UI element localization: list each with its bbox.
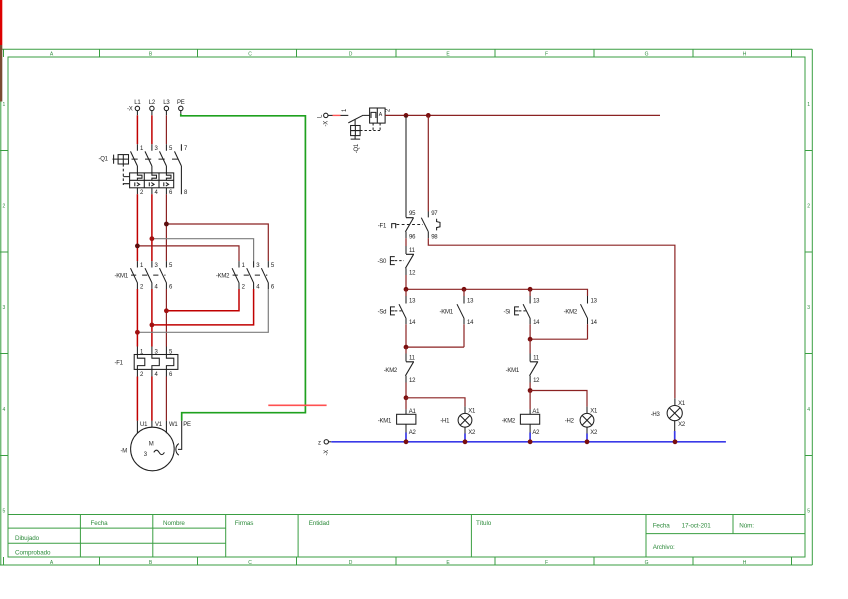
- wire L3 phase: [165, 115, 167, 144]
- wire KM1 pole2 down: [136, 289, 138, 347]
- svg-text:-Q1: -Q1: [99, 156, 109, 162]
- F1 NO spring hook: [437, 219, 440, 231]
- thermal relay F1 box: [134, 355, 178, 370]
- control rail wire: [385, 114, 660, 116]
- svg-text:-KM1: -KM1: [506, 368, 520, 374]
- svg-text:PE: PE: [177, 100, 185, 106]
- terminal L1: [135, 106, 139, 110]
- svg-text:X2: X2: [468, 430, 476, 436]
- svg-text:3: 3: [2, 305, 5, 311]
- node latch right: [528, 337, 533, 342]
- neutral terminal z: [324, 440, 328, 444]
- control terminal L: [324, 113, 328, 117]
- terminal L3: [164, 106, 168, 110]
- svg-text:G: G: [645, 560, 649, 566]
- motor sine symbol: [154, 450, 165, 454]
- svg-text:98: 98: [431, 234, 438, 240]
- node latch: [404, 345, 409, 350]
- F1 trip symbol: [392, 224, 396, 229]
- svg-text:-X: -X: [324, 450, 330, 456]
- wire 96 to S0: [405, 238, 407, 246]
- svg-text:Núm:: Núm:: [739, 523, 754, 530]
- svg-text:Título: Título: [476, 520, 492, 527]
- terminal PE: [179, 106, 183, 110]
- contactor KM2 pin numbers: [242, 263, 275, 291]
- stop button S0 NC contact: [405, 246, 414, 275]
- node bus1/Si: [528, 287, 533, 292]
- svg-text:A1: A1: [409, 409, 417, 415]
- breaker Q1 thermal elements: [137, 173, 171, 180]
- svg-text:-Si: -Si: [504, 310, 511, 316]
- svg-text:-X: -X: [324, 121, 330, 127]
- coil KM2: [520, 414, 539, 424]
- svg-text:13: 13: [467, 298, 474, 304]
- control stub black: [328, 114, 333, 116]
- svg-text:2: 2: [807, 204, 810, 210]
- svg-text:14: 14: [467, 320, 474, 326]
- lamp H3 bottom wire: [674, 421, 676, 431]
- svg-text:X1: X1: [678, 401, 686, 407]
- left coordinate band row ticks: [0, 151, 8, 456]
- coil KM1 bottom wire: [405, 424, 407, 432]
- contactor KM1 linkage: [131, 274, 166, 276]
- start button Sd NO contact: [405, 289, 407, 296]
- svg-text:5: 5: [807, 509, 810, 515]
- svg-text:-H2: -H2: [565, 419, 575, 425]
- svg-text:X2: X2: [590, 430, 598, 436]
- z stub: [329, 441, 332, 443]
- svg-text:-X: -X: [127, 107, 133, 113]
- svg-text:2: 2: [2, 204, 5, 210]
- node bus2/KM2 coil: [528, 439, 533, 444]
- right band row numbers 1-5: [807, 102, 810, 515]
- F1 NO contact 97-98: [421, 218, 428, 239]
- terminal strip -X labels L1 L2 L3 PE: [134, 100, 184, 106]
- svg-text:-Sd: -Sd: [378, 310, 387, 316]
- svg-text:M: M: [149, 442, 154, 448]
- wire to motor U1: [136, 377, 138, 421]
- svg-text:-KM2: -KM2: [564, 310, 578, 316]
- wire to coil node right: [529, 383, 531, 391]
- F1 aux dashed linkage: [397, 224, 424, 226]
- breaker Q1 linkage dashes: [132, 158, 180, 160]
- KM1 aux NO contact 13-14: [463, 289, 465, 296]
- pink spare wire segment: [268, 404, 326, 406]
- wire branch to lamp H1: [406, 398, 465, 407]
- svg-text:C: C: [248, 560, 252, 566]
- control bus1: [406, 289, 588, 296]
- wire S0 to bus1: [405, 275, 407, 289]
- svg-text:-H3: -H3: [651, 412, 661, 418]
- breaker Q1 pole 3-4: [145, 144, 152, 173]
- wire L3 below Q1: [165, 194, 167, 261]
- node bus1/KM1-13: [462, 287, 467, 292]
- terminal L2: [150, 106, 154, 110]
- lamp H3: [667, 406, 682, 421]
- contactor KM2 pole 1-2: [232, 261, 239, 289]
- svg-text:13: 13: [409, 298, 416, 304]
- wire 98 to H3 branch: [428, 238, 675, 398]
- svg-text:11: 11: [533, 356, 540, 362]
- svg-text:13: 13: [533, 298, 540, 304]
- lamp H1: [458, 413, 472, 427]
- svg-text:-Q1: -Q1: [354, 143, 360, 153]
- svg-text:A2: A2: [409, 430, 417, 436]
- svg-text:-KM1: -KM1: [378, 419, 392, 425]
- crossover wire KM2 pole2 to phase3: [166, 289, 239, 311]
- breaker Q1 pin numbers bottom 2 4 6 8: [140, 190, 188, 196]
- wire L1 phase: [136, 115, 138, 144]
- svg-text:-S0: -S0: [378, 259, 388, 265]
- start button Si NO contact: [529, 289, 531, 296]
- wire KM1 pole6 down: [165, 289, 167, 347]
- interlock KM1 NC contact 11-12: [529, 339, 531, 353]
- svg-text:H: H: [743, 52, 747, 58]
- control pink wire: [333, 114, 341, 116]
- bottom band letters A-H: [50, 560, 747, 566]
- top band letters A-H: [50, 52, 747, 58]
- crossover wire L1 to KM2 pole1: [137, 246, 239, 261]
- svg-text:Comprobado: Comprobado: [15, 550, 51, 557]
- title block texts: [15, 520, 754, 557]
- crossover wire L3 to KM2 pole5: [166, 224, 268, 261]
- coil KM1: [397, 414, 416, 424]
- breaker Q1 pole 1-2: [131, 144, 138, 173]
- thermal relay F1 bottom stubs: [137, 369, 166, 376]
- svg-text:Dibujado: Dibujado: [15, 535, 40, 542]
- node bus2/KM1 coil: [404, 439, 409, 444]
- Q1 aux operator link: [354, 120, 356, 126]
- Q1 aux operator square: [351, 126, 361, 136]
- wire to coil KM1: [405, 398, 407, 410]
- svg-text:1: 1: [2, 102, 5, 108]
- wire to coil node: [405, 383, 407, 398]
- breaker Q1 magnetic elements I>: [135, 182, 169, 186]
- svg-text:-KM2: -KM2: [216, 274, 230, 280]
- contactor KM1 pole 3-4: [145, 261, 152, 289]
- node L3/KM2: [164, 222, 169, 227]
- svg-text:G: G: [645, 52, 649, 58]
- svg-text:-KM1: -KM1: [115, 274, 129, 280]
- svg-text:X1: X1: [590, 408, 598, 414]
- svg-text:Archivo:: Archivo:: [653, 544, 675, 551]
- svg-text:X1: X1: [468, 408, 476, 414]
- contactor KM1 pole 1-2: [131, 261, 138, 289]
- svg-text:14: 14: [409, 320, 416, 326]
- svg-text:11: 11: [409, 356, 416, 362]
- breaker Q1 pole 5-6: [160, 144, 167, 173]
- lamp H1 stub: [464, 407, 466, 414]
- thermal relay F1 pin numbers bottom: [140, 372, 173, 378]
- svg-text:12: 12: [409, 378, 416, 384]
- svg-text:1: 1: [807, 102, 810, 108]
- right coordinate band row ticks: [805, 151, 812, 456]
- svg-text:z: z: [318, 441, 321, 447]
- contactor KM1 pin numbers: [140, 263, 173, 291]
- node phase2 swap: [150, 323, 155, 328]
- svg-text:-KM1: -KM1: [440, 310, 454, 316]
- node L1/KM2: [135, 244, 140, 249]
- left band row numbers 1-5: [2, 102, 5, 515]
- wire PE into motor: [178, 421, 182, 450]
- node rail/branch2: [426, 113, 431, 118]
- svg-text:L3: L3: [163, 100, 170, 106]
- node phase1 swap: [135, 330, 140, 335]
- breaker Q1 aux pole 7-8: [175, 144, 182, 194]
- node bus1/Sd: [404, 287, 409, 292]
- node bus2/H1: [463, 439, 468, 444]
- wire L2 phase: [151, 115, 153, 144]
- svg-text:Fecha: Fecha: [91, 520, 109, 527]
- latching wires Sd/KM1: [406, 324, 464, 347]
- svg-text:11: 11: [409, 248, 416, 254]
- lamp H2 bottom wire: [586, 427, 588, 433]
- wire rail to F1-95 (black): [405, 115, 407, 217]
- title block table lines: [8, 515, 805, 558]
- latching wires Si/KM2: [530, 324, 587, 339]
- motor PE arc: [176, 444, 179, 456]
- S0 pushbutton actuator: [390, 257, 394, 265]
- svg-text:Entidad: Entidad: [309, 520, 330, 527]
- Q1 aux relay box thermal glyph: [371, 112, 376, 118]
- Q1 aux contact blade: [348, 115, 369, 123]
- wire PE green: [181, 114, 306, 421]
- lamp H1 bottom wire: [464, 427, 466, 433]
- svg-text:14: 14: [591, 320, 598, 326]
- crossover wire KM2 pole4 to phase2: [152, 289, 254, 325]
- svg-text:U1: U1: [140, 422, 148, 428]
- svg-text:4: 4: [2, 407, 5, 413]
- node L2/KM2: [150, 236, 155, 241]
- svg-text:A: A: [379, 112, 383, 118]
- svg-text:X2: X2: [678, 422, 686, 428]
- svg-text:3: 3: [807, 305, 810, 311]
- motor M circle: [131, 427, 175, 471]
- lamp H2 stub: [586, 407, 588, 414]
- svg-text:C: C: [248, 52, 252, 58]
- node coil KM2 branch: [528, 388, 533, 393]
- node rail/branch1: [404, 113, 409, 118]
- svg-text:Nombre: Nombre: [163, 520, 185, 527]
- svg-text:F: F: [545, 52, 548, 58]
- svg-text:-F1: -F1: [378, 224, 387, 230]
- top coordinate band dividers: [4, 49, 792, 57]
- contactor KM2 linkage: [233, 274, 268, 276]
- lamp H2: [580, 413, 594, 427]
- svg-text:-KM2: -KM2: [502, 419, 516, 425]
- svg-text:95: 95: [409, 211, 416, 217]
- lamp H3 stub: [674, 398, 676, 405]
- svg-text:-F1: -F1: [115, 361, 124, 367]
- svg-text:Fecha: Fecha: [653, 523, 671, 530]
- wire KM1 pole4 down: [151, 289, 153, 347]
- Q1 aux relay box: [370, 108, 386, 123]
- svg-text:96: 96: [409, 234, 416, 240]
- thermal relay F1 top stubs: [137, 347, 166, 355]
- svg-text:PE: PE: [183, 422, 191, 428]
- svg-text:-H1: -H1: [440, 419, 450, 425]
- svg-text:12: 12: [409, 271, 416, 277]
- terminal stubs: [137, 111, 180, 116]
- svg-text:-M: -M: [121, 449, 128, 455]
- contactor KM2 pole 5-6: [261, 261, 268, 289]
- svg-text:W1: W1: [169, 422, 178, 428]
- motor stubs: [137, 421, 166, 434]
- svg-text:-KM2: -KM2: [384, 368, 398, 374]
- KM2 aux NO contact 13-14: [581, 296, 588, 324]
- wire L2 below Q1: [151, 194, 153, 261]
- wire branch to lamp H2: [530, 391, 587, 407]
- node phase3 swap: [164, 308, 169, 313]
- svg-text:A1: A1: [532, 409, 540, 415]
- svg-text:4: 4: [807, 407, 810, 413]
- node bus2/H3: [673, 439, 678, 444]
- coil KM2 bottom wire: [529, 424, 531, 432]
- breaker Q1 operator: [113, 155, 129, 164]
- thermal relay F1 heater elements: [137, 355, 173, 370]
- contactor KM1 pole 5-6: [160, 261, 167, 289]
- svg-text:D: D: [349, 52, 353, 58]
- wire to coil KM2: [529, 391, 531, 410]
- wire rail to F1-97: [427, 115, 429, 211]
- interlock KM2 NC contact 11-12: [405, 347, 407, 353]
- svg-text:F: F: [545, 560, 548, 566]
- svg-text:5: 5: [2, 509, 5, 515]
- sheet frame inner border: [8, 57, 805, 557]
- Q1 aux dashed links: [360, 123, 381, 130]
- F1 NC contact 95-96: [405, 218, 413, 239]
- svg-text:D: D: [349, 560, 353, 566]
- svg-text:13: 13: [591, 298, 598, 304]
- svg-text:L2: L2: [149, 100, 156, 106]
- bottom coordinate band dividers: [4, 557, 792, 565]
- breaker Q1 thermal-magnetic box: [130, 173, 174, 188]
- svg-text:H: H: [743, 560, 747, 566]
- contactor KM2 pole 3-4: [247, 261, 254, 289]
- svg-text:L1: L1: [134, 100, 141, 106]
- red margin bar top-left: [0, 0, 2, 45]
- breaker Q1 trip ticks: [123, 177, 129, 184]
- blue neutral bus: [331, 441, 726, 443]
- svg-text:97: 97: [431, 211, 438, 217]
- node coil KM1 branch: [404, 395, 409, 400]
- motor terminal labels U1 V1 W1 PE: [140, 422, 191, 428]
- crossover wire L2 to KM2 pole3: [152, 239, 254, 261]
- svg-text:Firmas: Firmas: [235, 520, 254, 527]
- crossover wire KM2 pole6 to phase1: [137, 289, 268, 332]
- svg-text:A2: A2: [532, 430, 540, 436]
- svg-text:12: 12: [533, 378, 540, 384]
- svg-text:14: 14: [533, 320, 540, 326]
- breaker Q1 pin numbers top 1 3 5 7: [140, 146, 188, 152]
- Sd pushbutton actuator: [391, 307, 395, 315]
- breaker Q1 operator dashed link: [122, 164, 124, 185]
- wire to motor V1: [151, 377, 153, 421]
- breaker Q1 bottom stubs: [137, 188, 166, 194]
- wire L1 below Q1: [136, 194, 138, 261]
- node bus2/H2: [585, 439, 590, 444]
- wire to motor W1: [165, 377, 167, 421]
- Si pushbutton actuator: [515, 307, 519, 315]
- Q1 aux contact stub pin1: [341, 114, 349, 116]
- svg-text:17-oct-201: 17-oct-201: [682, 523, 712, 530]
- thermal relay F1 pin numbers top: [140, 350, 173, 356]
